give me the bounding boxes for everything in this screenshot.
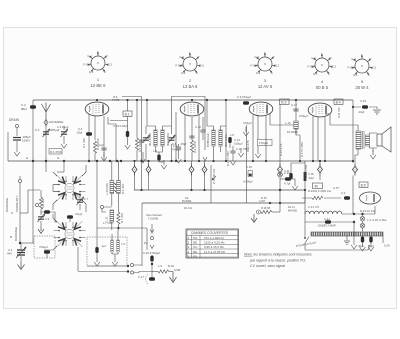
- wire: V1 pin g3 down: [103, 116, 105, 161]
- svg-text:C.21: C.21: [284, 169, 290, 173]
- boxed label B5: [359, 182, 368, 187]
- ground C3: [61, 139, 67, 148]
- wire: B- line: [142, 202, 305, 204]
- wire: C13 to ground: [127, 137, 129, 140]
- capacitor .005uF/1500V drain: [13, 138, 21, 141]
- wire: L6 ground lead: [159, 161, 164, 163]
- wire: osc grid elbow: [108, 117, 116, 161]
- wire: bottom return bus upper: [87, 265, 128, 267]
- capacitor blob C13: [126, 131, 129, 137]
- wire: heater line to tube5: [342, 206, 375, 214]
- wire: osc blob link: [41, 212, 57, 222]
- wire: junction to R18: [152, 271, 158, 273]
- table column rules: [192, 235, 201, 258]
- capacitor under tube2: [189, 136, 194, 138]
- inductor L10: [294, 121, 298, 129]
- wire: top B+ bus: [33, 99, 353, 101]
- svg-text:12 BA 6: 12 BA 6: [183, 84, 198, 89]
- output transformer secondary: [366, 135, 370, 146]
- wire: V1 plate to top bus: [96, 100, 98, 101]
- wire: drain cap to ground: [16, 141, 18, 147]
- wire: V1 pin k down: [88, 114, 90, 161]
- wire: C12 leads: [202, 117, 204, 140]
- wire: R20 leads: [302, 190, 341, 214]
- ground L3L4: [112, 257, 118, 266]
- wire: left vertical below bus: [32, 161, 34, 243]
- svg-text:R.4 47K: R.4 47K: [121, 184, 125, 194]
- tube socket base 4 (50B5): [308, 52, 337, 90]
- capacitor C12: [200, 130, 205, 132]
- svg-text:MASSE: MASSE: [288, 209, 297, 213]
- svg-text:1625 à 4,25 Mc: 1625 à 4,25 Mc: [204, 241, 225, 245]
- wire: R18 to ground: [169, 271, 173, 273]
- tube V2 12BA6 envelope: [180, 102, 204, 116]
- svg-text:GAMMES COUVERTES: GAMMES COUVERTES: [191, 231, 229, 235]
- terminal bottom 1: [130, 263, 133, 266]
- svg-text:30µf: 30µf: [358, 244, 364, 248]
- pilot lamp circle 1: [360, 216, 365, 221]
- terminal small osc: [100, 205, 103, 208]
- wire: L2 top-left elbow: [53, 214, 57, 222]
- wire: box2 cap to ground: [96, 253, 98, 257]
- blob C23: [362, 105, 368, 108]
- svg-text:B.4: B.4: [336, 100, 341, 104]
- MF2 transformer left winding: [212, 130, 215, 146]
- jack circle: [257, 210, 261, 214]
- wire: cadre elbow to osc cluster: [28, 190, 40, 213]
- wire: L3L4 join: [112, 252, 118, 257]
- junction bottom bus 2: [127, 270, 129, 272]
- blob L8: [228, 137, 231, 143]
- wire: L10 to junction: [296, 129, 300, 135]
- wire: L2 bottom to bottom bus: [77, 247, 79, 271]
- wire: padder stub: [20, 243, 22, 249]
- svg-text:S: S: [11, 211, 13, 215]
- boxed label B1: [123, 111, 132, 116]
- wire: page-left vertical: [7, 132, 9, 161]
- wire: box2 left vertical: [96, 161, 98, 247]
- svg-text:B.5: B.5: [361, 183, 366, 187]
- wire: heater column through bar: [353, 222, 355, 240]
- capacitor C11: [230, 151, 235, 153]
- speaker: [377, 127, 391, 152]
- terminal DRAIN: [15, 124, 18, 127]
- wire: plate link to B1 column: [110, 120, 128, 122]
- junction dots top bus: [96, 99, 354, 108]
- mains dropping resistor bar: [311, 232, 383, 236]
- wire: circle to dot: [279, 177, 281, 212]
- svg-text:C.7: C.7: [84, 197, 89, 201]
- wire: C23 branch: [353, 107, 377, 109]
- svg-text:B.3: B.3: [281, 100, 286, 104]
- svg-text:BOBINAGE: BOBINAGE: [206, 133, 210, 147]
- svg-text:FIL bl.: FIL bl.: [288, 205, 295, 209]
- svg-text:C.3: C.3: [45, 217, 50, 221]
- tube socket base 2 (12BA6): [176, 51, 205, 89]
- wire: C17 branch vertical: [295, 100, 297, 135]
- ground V3 left: [243, 127, 249, 136]
- svg-text:PO: PO: [193, 236, 198, 240]
- junction heater column: [353, 213, 355, 215]
- svg-text:R.7 10K: R.7 10K: [120, 213, 124, 223]
- svg-text:C.3 25µµf: C.3 25µµf: [57, 125, 69, 129]
- svg-text:47µµf: 47µµf: [75, 212, 82, 216]
- wire: V2 pin g down: [198, 115, 200, 161]
- wire: osc cross link: [102, 207, 112, 212]
- wire: osc bottom joins: [112, 222, 119, 230]
- wire: osc trimmer down: [40, 221, 42, 227]
- wire: C3 top: [63, 126, 65, 130]
- wire: osc link line y228: [97, 228, 147, 250]
- svg-text:470µµf: 470µµf: [259, 141, 268, 145]
- wire: transformer bottom to diamond: [355, 149, 358, 163]
- svg-text:T.(1945): T.(1945): [148, 217, 158, 221]
- antenna connector diamond: [44, 120, 48, 126]
- svg-text:L.5: L.5: [121, 242, 125, 246]
- svg-text:C.16: C.16: [246, 165, 252, 169]
- wire: V2 plate to top bus: [191, 100, 193, 101]
- boxed label 40: [313, 183, 323, 188]
- svg-text:440: 440: [7, 252, 12, 256]
- svg-text:40: 40: [315, 184, 319, 188]
- svg-text:50 B 5: 50 B 5: [316, 85, 329, 90]
- junction dot AVC: [279, 189, 281, 191]
- ground C23: [373, 110, 381, 114]
- wire: mains bottom line: [305, 245, 369, 250]
- diamond heater V3: [278, 164, 283, 176]
- wire: L2 bottom-left: [44, 246, 57, 250]
- capacitor C2 (.05uF blob on left vertical): [30, 105, 36, 108]
- wire: coil1 bottom left: [53, 200, 57, 210]
- trimmer MF1 right: [168, 135, 175, 143]
- wire: R14 box bottom lead: [257, 146, 259, 149]
- ground C19: [292, 181, 298, 190]
- boxed label B4: [334, 99, 343, 104]
- diamond heater V5: [353, 164, 358, 176]
- svg-text:L.7 OSC.: L.7 OSC.: [103, 221, 114, 225]
- wire: V4 plate up and right: [327, 114, 356, 125]
- svg-text:B.1: B.1: [125, 112, 130, 116]
- wire: R14 box lead: [257, 132, 259, 139]
- svg-text:P.2: P.2: [144, 241, 148, 245]
- svg-text:12 AV 6: 12 AV 6: [258, 84, 273, 89]
- svg-text:MF1 455Kc: MF1 455Kc: [148, 132, 152, 146]
- svg-text:C.23: C.23: [360, 99, 366, 103]
- junction fuse line: [353, 221, 355, 223]
- svg-text:L.V. 6,3V 0,15A: L.V. 6,3V 0,15A: [367, 218, 386, 222]
- wire: MF1 left bottom: [155, 146, 157, 152]
- svg-text:22,5 10W CH.: 22,5 10W CH.: [314, 189, 332, 193]
- svg-text:470µµf: 470µµf: [172, 148, 181, 152]
- wire: bar drops: [347, 236, 383, 243]
- svg-text:470µµf: 470µµf: [243, 121, 252, 125]
- terminal cadre top: [18, 179, 21, 182]
- wire: cadre vertical: [19, 183, 21, 243]
- junction dots AVC line: [190, 189, 306, 191]
- wire: R3 top: [111, 161, 113, 181]
- dashed shield arc: [146, 274, 149, 284]
- svg-text:A.TV: A.TV: [333, 186, 339, 190]
- wire: osc cluster leads: [40, 190, 42, 215]
- svg-text:.1µf: .1µf: [101, 244, 106, 248]
- capacitor blob in shield box: [44, 250, 50, 253]
- wire: R19 vertical line: [304, 161, 306, 203]
- svg-text:.05µf: .05µf: [76, 131, 82, 135]
- diamond heater V1a: [132, 164, 137, 176]
- svg-text:R.16 4,7K: R.16 4,7K: [279, 143, 283, 156]
- tube V3 12AV6 envelope: [249, 102, 273, 116]
- wire: antenna column drop: [45, 161, 47, 172]
- wire: C21 elbow: [291, 163, 305, 173]
- wire: R5 bottom: [136, 150, 138, 161]
- table gammes couvertes outer: [186, 229, 239, 258]
- capacitor on middle heater line: [139, 140, 144, 142]
- table row rules: [186, 240, 239, 254]
- electrolytic C25: [361, 237, 364, 243]
- wire: MF1 trimmer left drop: [145, 126, 147, 161]
- svg-text:L.9: L.9: [158, 264, 162, 268]
- MF2 transformer right winding: [219, 130, 222, 146]
- ground C26: [368, 242, 374, 251]
- svg-text:BE: BE: [193, 250, 197, 254]
- svg-text:100µµf: 100µµf: [234, 142, 243, 146]
- blob C19b: [149, 277, 155, 280]
- wire: AVC line: [134, 189, 305, 191]
- wire: bottom terminal link: [134, 265, 152, 273]
- wire: transformer top: [356, 125, 358, 131]
- junction middle heater line H3: [140, 189, 142, 191]
- wire: V2 pin k down: [184, 115, 186, 161]
- svg-text:C.9 100µµf: C.9 100µµf: [237, 95, 251, 99]
- dashed shield box left: [34, 236, 55, 258]
- capacitor C9 blob top: [243, 101, 249, 104]
- arrow V2 grid to bus: [203, 157, 207, 161]
- junction P2: [151, 263, 153, 265]
- boxed label B3: [280, 99, 290, 104]
- coil L3: [111, 240, 113, 252]
- wire: coil1 top-left stub: [53, 172, 57, 176]
- osc padder winding: [110, 210, 114, 222]
- wire: lamp column to bar: [362, 214, 364, 232]
- ground under R14 box: [255, 149, 261, 158]
- svg-text:R.1 22K: R.1 22K: [82, 138, 86, 148]
- coil L2 oscillator (X symbol): [54, 221, 86, 247]
- svg-text:L.6: L.6: [153, 149, 157, 153]
- junction MF1 right: [170, 160, 172, 162]
- wire: B1 drop: [127, 116, 129, 131]
- wire: L4 top: [117, 230, 119, 240]
- ground C25: [360, 242, 366, 251]
- svg-text:BLINDE: BLINDE: [182, 199, 192, 203]
- svg-text:C.8: C.8: [172, 142, 177, 146]
- MF1 transformer right winding: [161, 130, 164, 146]
- terminal P2: [150, 236, 153, 239]
- junction bottom bus: [127, 265, 129, 267]
- svg-text:TYPE: TYPE: [112, 98, 119, 102]
- tube V4 50B5 envelope: [308, 103, 332, 117]
- wire: detector output to C17 column: [270, 120, 294, 125]
- wire: fuse line: [305, 221, 354, 223]
- ground bar left drop: [344, 241, 350, 244]
- tube socket base 3 (12AV6): [251, 51, 280, 89]
- wire: R9 leads: [191, 117, 193, 161]
- svg-text:4,7µf: 4,7µf: [284, 182, 290, 186]
- resistor R2 vertical: [93, 141, 96, 153]
- capacitor C16 boxed: [248, 171, 252, 177]
- circle connector X: [278, 172, 283, 177]
- junction dot B-: [269, 202, 271, 204]
- ground R18 big arrow: [170, 272, 177, 283]
- osc cluster trimmer: [38, 214, 45, 222]
- svg-text:.05µf: .05µf: [180, 142, 186, 146]
- diamond heater V4: [318, 164, 323, 176]
- diamond heater V1b: [146, 164, 151, 176]
- junction padder: [19, 242, 21, 244]
- svg-text:R.17 0,47M: R.17 0,47M: [300, 142, 304, 157]
- svg-text:L.8: L.8: [230, 133, 234, 137]
- wire: MF2 center vertical: [225, 100, 227, 161]
- wire: V5 column: [352, 176, 354, 215]
- arrow P1 wiper: [212, 176, 216, 180]
- ground speaker: [370, 150, 376, 159]
- wire: L3 top: [111, 234, 113, 240]
- svg-text:.05µf: .05µf: [20, 107, 27, 111]
- svg-text:5,95 à 15,5 Mc: 5,95 à 15,5 Mc: [204, 245, 224, 249]
- svg-text:.02µf: .02µf: [358, 110, 364, 114]
- wire: C19 to ground: [291, 179, 295, 181]
- variable capacitor C1 365pF: [43, 129, 50, 137]
- dashed shield box 2 (L3/L4): [87, 237, 127, 266]
- ground MF2 right: [238, 148, 244, 157]
- ground g3 cap: [101, 152, 107, 161]
- wire: dia1 drop: [134, 176, 136, 191]
- output transformer core: [363, 131, 365, 149]
- pilot lamp circle 2: [360, 223, 365, 228]
- wire: R4 top: [117, 161, 119, 181]
- blob fuse: [325, 220, 331, 223]
- blob C20: [150, 256, 153, 262]
- oscillator coil winding right: [117, 181, 121, 194]
- svg-text:R.4 470K: R.4 470K: [50, 150, 62, 154]
- junction V3 column B-: [279, 202, 281, 204]
- wire: grid jumper left: [122, 96, 142, 98]
- wire: MF1 to V2 grid jumper: [172, 97, 206, 151]
- coil L1 ferrite antenna (X symbol): [54, 175, 86, 201]
- wire: R4 bottom: [117, 194, 119, 213]
- wire: MF2 bottoms: [214, 143, 231, 161]
- wire: coil1 left stubs to cadre: [53, 185, 59, 192]
- wiper V P2: [150, 245, 154, 249]
- svg-text:C.13 0,05µf: C.13 0,05µf: [113, 124, 128, 128]
- ground padder (arrow): [18, 262, 25, 270]
- blob R23: [344, 196, 350, 199]
- trimmer between coils: [77, 197, 84, 205]
- svg-text:L.30 OSC: L.30 OSC: [105, 183, 109, 195]
- blob L6: [157, 155, 160, 161]
- table header rule: [186, 234, 239, 236]
- wire: MF1 left top: [147, 100, 156, 130]
- svg-text:R.18 68: R.18 68: [261, 206, 271, 210]
- svg-text:C.20 4700µµf: C.20 4700µµf: [143, 251, 160, 255]
- svg-text:.02µf: .02µf: [308, 176, 314, 180]
- svg-text:470µµf: 470µµf: [39, 245, 48, 249]
- svg-text:R.9 100K: R.9 100K: [193, 141, 197, 153]
- diamond heater V2a: [189, 164, 194, 176]
- wire: R13 vertical line: [246, 125, 248, 203]
- oscillator coil winding left: [110, 181, 114, 194]
- wire: V2 dia drops: [192, 161, 205, 190]
- wire: bottom return bus lower: [78, 271, 128, 273]
- junction middle heater line: [140, 160, 142, 162]
- wire: right vertical from top bus: [352, 100, 354, 163]
- resistor R5 vertical: [135, 138, 138, 150]
- resistor R18b: [261, 210, 272, 213]
- svg-text:BLINDAGE: BLINDAGE: [5, 198, 9, 212]
- electrolytic C26: [369, 237, 372, 243]
- wire: coil1 left vertical from bus: [63, 161, 65, 172]
- potentiometer P1 vertical: [210, 165, 212, 203]
- variable capacitor C4 padder: [16, 247, 26, 258]
- coil L4: [117, 240, 119, 252]
- terminal bottom 2: [130, 271, 133, 274]
- svg-text:C.12: C.12: [195, 125, 201, 129]
- osc cluster resistor: [39, 197, 42, 209]
- svg-text:R.2 100K: R.2 100K: [96, 138, 100, 150]
- svg-text:H: H: [26, 156, 28, 160]
- wire: C3 to ground: [63, 136, 65, 139]
- wire: trimmer leads: [79, 193, 81, 210]
- svg-text:BLINDAGE: BLINDAGE: [14, 227, 18, 241]
- wire: shield box cap lead: [46, 254, 48, 258]
- label detector box: [258, 139, 273, 145]
- trimmer C3 antenna: [61, 129, 68, 137]
- wire: L2 top stub: [69, 219, 71, 222]
- svg-text:L.10: L.10: [285, 121, 291, 125]
- svg-text:1500V: 1500V: [22, 139, 30, 143]
- wire: padder to ground: [20, 256, 22, 262]
- ground C13: [125, 140, 131, 149]
- wire: dia2 drop: [148, 176, 150, 191]
- svg-text:P.1 1,5K CH.: P.1 1,5K CH.: [212, 168, 216, 184]
- svg-text:R.12 0,47M: R.12 0,47M: [226, 151, 230, 166]
- svg-text:470µµf: 470µµf: [299, 114, 308, 118]
- ground jack: [251, 214, 257, 223]
- svg-text:par rapport à la masse, positi: par rapport à la masse, position PO,: [249, 259, 306, 263]
- boxed label R4 470K: [49, 149, 62, 155]
- svg-text:0,5M: 0,5M: [174, 268, 181, 272]
- wire: cadre S stub: [20, 212, 28, 214]
- wire: secondary to speaker: [370, 133, 378, 152]
- osc cluster terminal: [35, 203, 38, 206]
- wire: cadre terminal stub: [19, 176, 21, 179]
- wire: V1 pin g1 down: [94, 116, 96, 140]
- wire: R3 bottom: [111, 194, 113, 207]
- svg-text:FIL CH.: FIL CH.: [184, 206, 193, 210]
- capacitor C4 blob on V1 cathode branch: [86, 132, 92, 135]
- svg-text:10.000µf: 10.000µf: [287, 130, 298, 134]
- switch dots: [304, 237, 306, 239]
- svg-text:R.24 1K 1W: R.24 1K 1W: [360, 209, 375, 213]
- output transformer primary: [356, 131, 361, 149]
- tube V1 12BE6 envelope: [85, 102, 109, 116]
- svg-text:Nota: les tensions indiquées s: Nota: les tensions indiquées sont mesuré…: [244, 253, 312, 257]
- wire: R17 vertical line: [299, 135, 301, 161]
- svg-text:DRAIN: DRAIN: [9, 118, 20, 122]
- wire: left mains rail: [304, 214, 306, 238]
- wire: C11 leads: [232, 146, 234, 156]
- blob C19: [285, 177, 291, 180]
- resistor R7 vertical: [117, 212, 120, 224]
